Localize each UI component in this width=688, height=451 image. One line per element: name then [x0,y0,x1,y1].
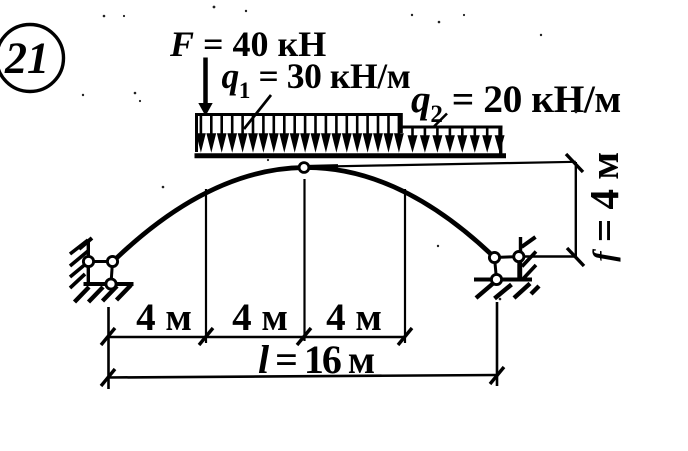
f dimension bottom tick [567,248,584,266]
right wall cap hatch [522,237,536,247]
svg-text:l = 16 м: l = 16 м [258,337,374,382]
left wall hatch [70,240,88,254]
left wall hatch [70,262,88,277]
left support pin B [107,256,117,266]
left support pin C [106,279,116,289]
q2 leader line [434,114,447,127]
right ground line [474,278,532,282]
right wall hatch [522,265,536,280]
crown elevation reference line [309,162,576,167]
f dimension line [575,162,577,258]
left support link AB [89,260,113,263]
dimension line 4m row [108,336,406,339]
right ground hatch [514,284,530,299]
tick at 405,337 [398,328,412,345]
quarter extension line left [205,189,207,343]
distributed load q1 left edge [195,113,198,152]
svg-text:4 м: 4 м [326,296,382,339]
svg-text:21: 21 [4,34,49,83]
right ground hatch [476,284,493,299]
left wall hatch [70,274,85,288]
svg-text:q2 = 20 кН/м: q2 = 20 кН/м [411,77,621,128]
arch rib (parabola) [113,167,495,261]
left ground hatch [103,286,118,301]
left ground hatch [89,287,104,302]
tick at 304,337 [297,328,311,345]
svg-text:f = 4 м: f = 4 м [581,152,627,261]
support elevation line to f dimension [523,255,577,257]
left wall hatch [70,251,88,266]
crown extension line [303,179,305,341]
right support link B down [517,257,520,280]
label F = 40 kN [169,24,326,64]
left span extension line [107,307,110,389]
q1 leader line [244,95,271,129]
quarter extension line right [404,189,406,343]
right wall line [519,237,522,279]
tick at 108,337 [101,328,115,345]
distributed load q1 right step edge [399,113,403,133]
distributed load q1 top line [195,113,403,116]
tick at 497,375 [490,367,504,384]
right ground hatch [531,286,539,294]
distributed load q1 arrows [196,114,404,153]
right support pin A [489,252,499,262]
force F arrow [198,58,212,117]
right support pin C [491,274,501,284]
label q1 = 30 kN/m [222,56,411,103]
label q2 = 20 kN/m [411,77,621,128]
dimension line l=16m row [108,375,497,378]
left ground line [84,282,134,286]
left support pin A [83,256,93,266]
right wall hatch [522,252,536,267]
scan specks [82,6,578,301]
distributed load q2 top line [401,126,503,129]
right support link AC [495,258,497,280]
right ground hatch [495,285,512,299]
task number badge circle 21 [0,25,64,92]
tick at 206,337 [199,328,213,345]
right span extension line [496,302,499,386]
tick at 108,377 [101,369,115,386]
distributed load q2 arrows [408,127,505,153]
left support group [70,238,134,302]
left ground hatch [117,285,132,300]
right support pin B [514,252,524,262]
load application bottom line [195,153,507,158]
svg-text:4 м: 4 м [232,296,288,339]
crown hinge [299,163,309,173]
left wall line [87,242,90,283]
right support link AB [495,255,519,259]
left wall cap hatch [79,238,92,249]
right support bottom link [497,278,522,281]
svg-text:4 м: 4 м [136,296,192,339]
f dimension top tick [566,154,583,172]
svg-text:q1 = 30 кН/м: q1 = 30 кН/м [222,56,411,103]
left support link BC [111,262,113,285]
distributed load q2 right edge [499,126,502,154]
left ground hatch [75,287,90,302]
right support group [474,237,539,299]
